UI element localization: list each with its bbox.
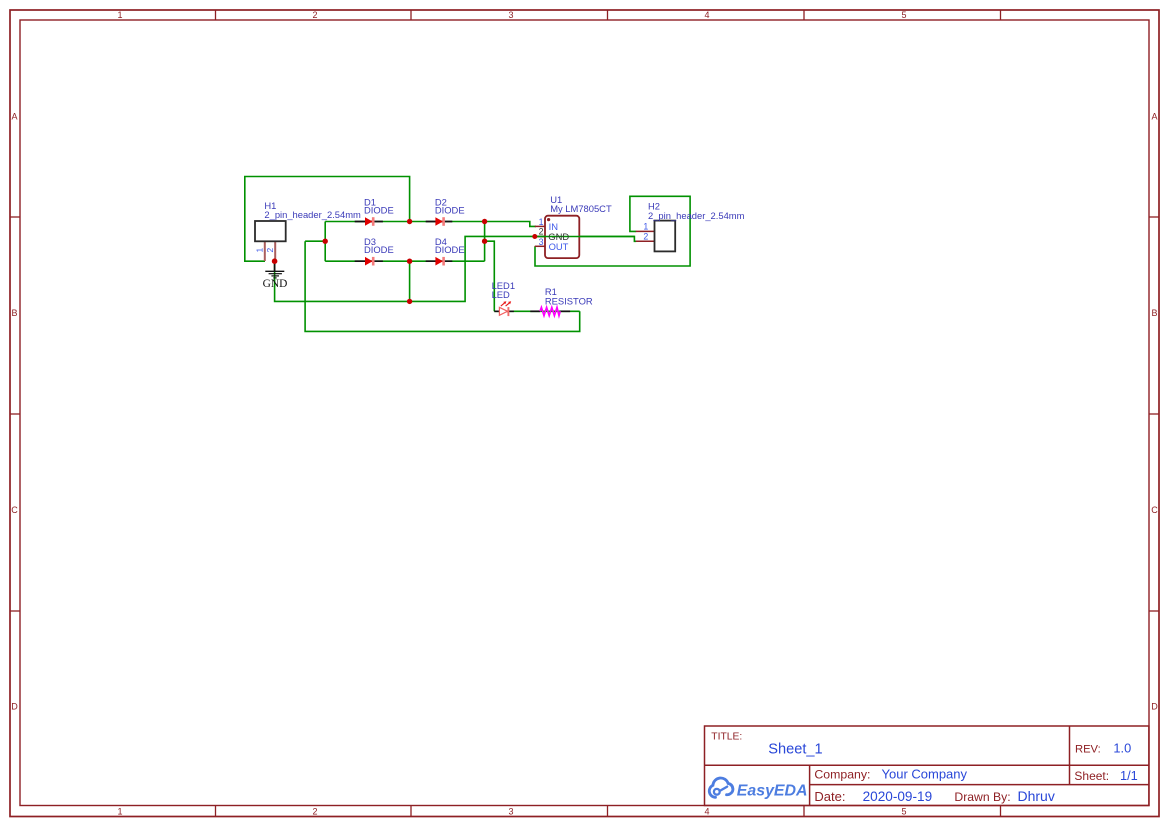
svg-text:1: 1	[643, 222, 648, 232]
svg-text:LED: LED	[492, 289, 510, 300]
junction top row mid	[407, 219, 412, 224]
svg-text:2_pin_header_2.54mm: 2_pin_header_2.54mm	[648, 210, 745, 221]
wire bridge right vertical	[484, 222, 486, 262]
diode D3	[355, 236, 394, 266]
svg-text:1: 1	[539, 217, 544, 227]
svg-text:B: B	[1151, 308, 1157, 318]
svg-text:DIODE: DIODE	[435, 244, 465, 255]
svg-text:1: 1	[117, 807, 122, 817]
U1 pin 3 line	[535, 245, 545, 247]
svg-text:3: 3	[508, 10, 513, 20]
svg-text:5: 5	[901, 807, 906, 817]
wire H1 pin1 to bridge top	[245, 177, 410, 262]
svg-text:2: 2	[643, 232, 648, 242]
wire DC+ to U1 IN	[485, 222, 536, 227]
header H1	[254, 200, 361, 261]
junction bridge right top	[482, 219, 487, 224]
U1 body	[545, 216, 579, 258]
header H2	[636, 201, 745, 252]
svg-text:1.0: 1.0	[1113, 740, 1131, 755]
H2 pin 1 line	[636, 230, 655, 232]
svg-text:2_pin_header_2.54mm: 2_pin_header_2.54mm	[264, 209, 361, 220]
svg-text:IN: IN	[549, 221, 558, 232]
wire node stub	[305, 240, 325, 242]
diode D2	[426, 196, 465, 226]
U1 pin 1 line	[535, 225, 545, 227]
H2 pin 2 line	[636, 240, 655, 242]
diode D4	[426, 236, 465, 266]
svg-text:4: 4	[704, 10, 709, 20]
svg-text:RESISTOR: RESISTOR	[545, 295, 593, 306]
svg-text:3: 3	[508, 807, 513, 817]
wire bridge top row	[325, 221, 484, 223]
wire bridge bottom row	[325, 260, 484, 262]
svg-text:2: 2	[539, 227, 544, 237]
svg-text:DIODE: DIODE	[364, 205, 394, 216]
svg-text:4: 4	[704, 807, 709, 817]
svg-text:TITLE:: TITLE:	[711, 731, 742, 742]
junction U1 GND pin	[532, 234, 537, 239]
LED LED1	[492, 280, 515, 316]
svg-text:1: 1	[117, 10, 122, 20]
svg-text:Company:: Company:	[814, 767, 870, 781]
svg-text:DIODE: DIODE	[435, 205, 465, 216]
svg-text:Your Company: Your Company	[882, 766, 968, 781]
svg-text:Sheet_1: Sheet_1	[768, 742, 822, 758]
svg-text:A: A	[11, 112, 17, 122]
H2 body	[655, 221, 676, 252]
junction GND bus	[407, 299, 412, 304]
svg-text:2: 2	[312, 10, 317, 20]
svg-text:D: D	[1151, 702, 1158, 712]
svg-text:3: 3	[539, 237, 544, 247]
svg-text:5: 5	[901, 10, 906, 20]
title block	[705, 726, 1149, 806]
wire GND bus crossing U1	[535, 236, 635, 238]
wire GND bus	[275, 236, 637, 301]
H1 pin 2	[274, 241, 276, 261]
H1 pin 1	[264, 241, 266, 261]
junction bridge left mid	[323, 239, 328, 244]
svg-text:Sheet:: Sheet:	[1074, 769, 1109, 783]
svg-text:1: 1	[254, 248, 264, 253]
wire LED R1 series	[494, 310, 579, 312]
U1 pin1 mark	[547, 218, 550, 221]
resistor R1	[530, 286, 593, 316]
H1 body	[255, 221, 286, 241]
wire DC+ to LED1	[485, 241, 495, 311]
svg-text:My LM7805CT: My LM7805CT	[550, 203, 612, 214]
svg-text:Dhruv: Dhruv	[1018, 788, 1055, 804]
LED1 arrow 2	[506, 303, 510, 306]
diode D1	[355, 196, 394, 226]
svg-text:REV:: REV:	[1075, 743, 1101, 755]
svg-text:2: 2	[312, 807, 317, 817]
svg-text:C: C	[11, 505, 18, 515]
wire bridge left vertical	[324, 222, 326, 262]
svg-text:1/1: 1/1	[1120, 768, 1138, 783]
svg-text:GND: GND	[263, 278, 288, 290]
junction bottom row mid	[407, 259, 412, 264]
wire LED return loop	[305, 241, 580, 331]
svg-text:D: D	[11, 702, 18, 712]
svg-text:2020-09-19: 2020-09-19	[863, 789, 933, 804]
wire U1 OUT to H2 pin1	[535, 196, 690, 266]
regulator U1	[535, 194, 635, 258]
LED1 arrow 1	[501, 303, 505, 306]
junction bridge right mid	[482, 239, 487, 244]
svg-text:B: B	[11, 308, 17, 318]
svg-text:A: A	[1151, 112, 1157, 122]
svg-text:EasyEDA: EasyEDA	[737, 783, 808, 800]
U1 pin 2 line	[535, 236, 545, 238]
svg-text:2: 2	[265, 248, 275, 253]
svg-text:C: C	[1151, 505, 1158, 515]
junction H1 pin2 / GND	[272, 258, 278, 264]
ground GND	[263, 261, 288, 290]
svg-text:DIODE: DIODE	[364, 244, 394, 255]
wire D3-D4 junction to GND bus	[409, 261, 411, 301]
svg-text:Drawn By:: Drawn By:	[954, 790, 1010, 804]
svg-text:OUT: OUT	[549, 241, 569, 252]
EasyEDA logo	[709, 778, 807, 800]
svg-text:Date:: Date:	[814, 789, 845, 804]
